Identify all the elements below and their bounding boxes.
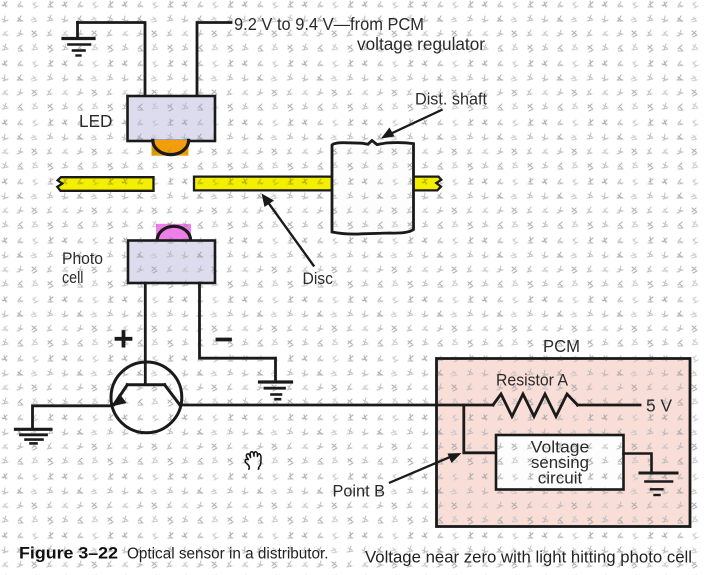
arrow: Point B callout bbox=[390, 453, 462, 483]
disc left segment (yellow) bbox=[57, 177, 153, 191]
wire: emitter to left ground bbox=[33, 406, 113, 429]
label Photo cell bbox=[62, 250, 103, 287]
wire: collector to resistor A (node Point B) bbox=[180, 404, 493, 407]
LED body box bbox=[128, 96, 216, 141]
ground (emitter) bbox=[16, 429, 52, 443]
plus terminal label bbox=[117, 332, 131, 346]
PCM module box (pink) bbox=[437, 359, 691, 527]
photo cell body box bbox=[128, 241, 215, 284]
LED emitter lens (orange) bbox=[152, 140, 189, 156]
ground (top left, supply return) bbox=[63, 23, 94, 56]
wire: resistor A to 5 V bbox=[578, 404, 641, 407]
mouse cursor (grab hand) bbox=[245, 452, 261, 470]
ground (photo cell return) bbox=[260, 382, 292, 399]
photo cell lens (magenta) bbox=[156, 224, 191, 241]
arrow: Disc callout bbox=[262, 194, 314, 266]
wire: sensing circuit to ground bbox=[624, 454, 652, 473]
distributor shaft (cylinder) bbox=[332, 141, 414, 235]
label: Voltage sensing circuit bbox=[531, 439, 590, 488]
wire: top-left ground to LED anode riser bbox=[78, 23, 146, 97]
minus terminal label bbox=[218, 338, 231, 342]
transistor Q1 (phototransistor) bbox=[111, 362, 182, 433]
voltage sensing circuit box bbox=[496, 435, 624, 490]
resistor A zigzag bbox=[493, 394, 578, 416]
arrow: Dist. shaft callout bbox=[381, 110, 442, 139]
wire: point B branch to voltage sensing circuit bbox=[464, 405, 496, 453]
wire: photo cell return leg to ground bbox=[200, 283, 276, 381]
wire: supply label to LED cathode riser bbox=[197, 23, 231, 97]
ground (sensing circuit) bbox=[640, 473, 677, 495]
disc right segment (yellow) bbox=[194, 177, 441, 191]
wire: photo cell emitter leg to transistor base bbox=[144, 283, 147, 385]
